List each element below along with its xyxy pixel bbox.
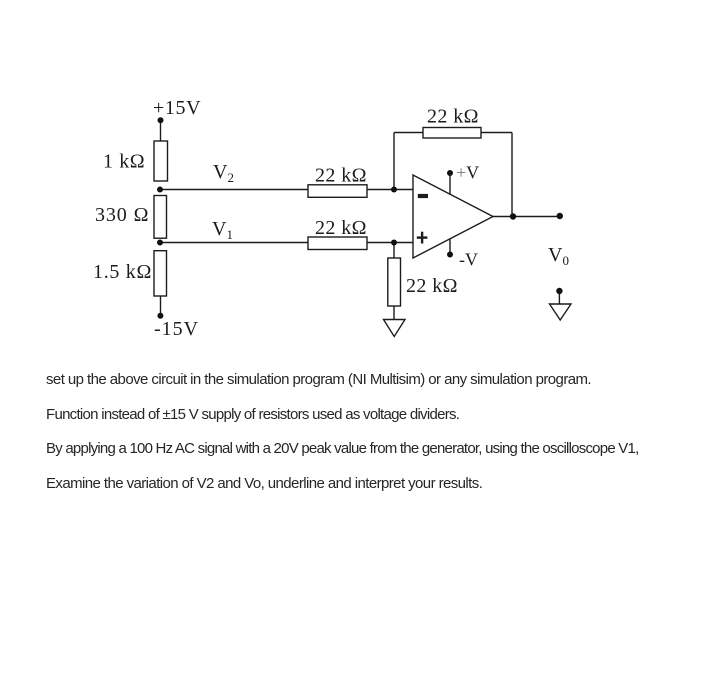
wire Vo ground stub <box>558 292 560 304</box>
node dot non-inverting input junction <box>391 240 397 246</box>
wire feedback right vertical <box>511 133 513 217</box>
resistor 22k input R5 body <box>308 237 367 250</box>
resistor 22k input R4 body <box>308 185 367 198</box>
svg-text:-15V: -15V <box>154 318 199 340</box>
svg-text:-V: -V <box>459 250 478 270</box>
wire +input node to 22k ground resistor <box>393 243 395 259</box>
paragraph line 4 <box>46 475 482 492</box>
svg-text:330 Ω: 330 Ω <box>95 204 149 226</box>
node dot inverting input junction <box>391 187 397 193</box>
svg-text:+15V: +15V <box>153 97 201 119</box>
wire feedback left vertical <box>393 133 395 190</box>
node dot Vo ground <box>556 288 562 294</box>
wire below 22k ground resistor <box>393 306 395 320</box>
op-amp plus input symbol <box>417 232 428 244</box>
node dot output end <box>557 213 563 219</box>
wire node V2 horizontal <box>160 189 413 191</box>
node dot V2 junction left <box>157 187 163 193</box>
node dot -15V <box>157 313 163 319</box>
paragraph line 1 <box>46 371 591 388</box>
node dot +V <box>447 170 453 176</box>
svg-text:1 kΩ: 1 kΩ <box>103 151 145 173</box>
svg-text:22 kΩ: 22 kΩ <box>406 275 458 297</box>
svg-text:22 kΩ: 22 kΩ <box>427 106 479 128</box>
svg-text:22 kΩ: 22 kΩ <box>315 165 367 187</box>
svg-text:22 kΩ: 22 kΩ <box>315 217 367 239</box>
ground symbol under 22k resistor <box>384 320 406 337</box>
wire node V1 horizontal <box>160 242 413 244</box>
wire feedback top right horizontal <box>481 132 512 134</box>
svg-text:1.5 kΩ: 1.5 kΩ <box>93 261 152 283</box>
resistor R-1k body <box>154 141 168 181</box>
paragraph line 3 <box>46 440 639 457</box>
node dot output junction <box>510 213 516 219</box>
svg-text:+V: +V <box>456 163 479 183</box>
resistor R-1.5k body <box>154 251 167 296</box>
svg-text:V0: V0 <box>548 244 569 268</box>
svg-text:V1: V1 <box>212 218 233 242</box>
circuit schematic <box>0 0 712 360</box>
ground symbol under Vo <box>550 304 572 320</box>
svg-text:V2: V2 <box>213 161 234 185</box>
resistor 22k to ground body <box>388 258 401 306</box>
resistor 22k feedback body <box>423 128 481 139</box>
resistor R-330 body <box>154 196 167 239</box>
op-amp U1 triangle <box>413 175 493 258</box>
node dot V1 junction left <box>157 240 163 246</box>
wire -15V rail bottom stub <box>160 296 162 315</box>
wire +15V rail top stub <box>160 121 162 141</box>
wire +V stub <box>449 174 451 194</box>
node dot -V <box>447 252 453 258</box>
node dot +15V <box>158 117 164 123</box>
paragraph line 2 <box>46 406 459 423</box>
wire -V stub <box>449 239 451 255</box>
wire feedback top left horizontal <box>394 132 423 134</box>
op-amp minus input symbol <box>418 194 428 198</box>
wire output horizontal <box>493 216 560 218</box>
